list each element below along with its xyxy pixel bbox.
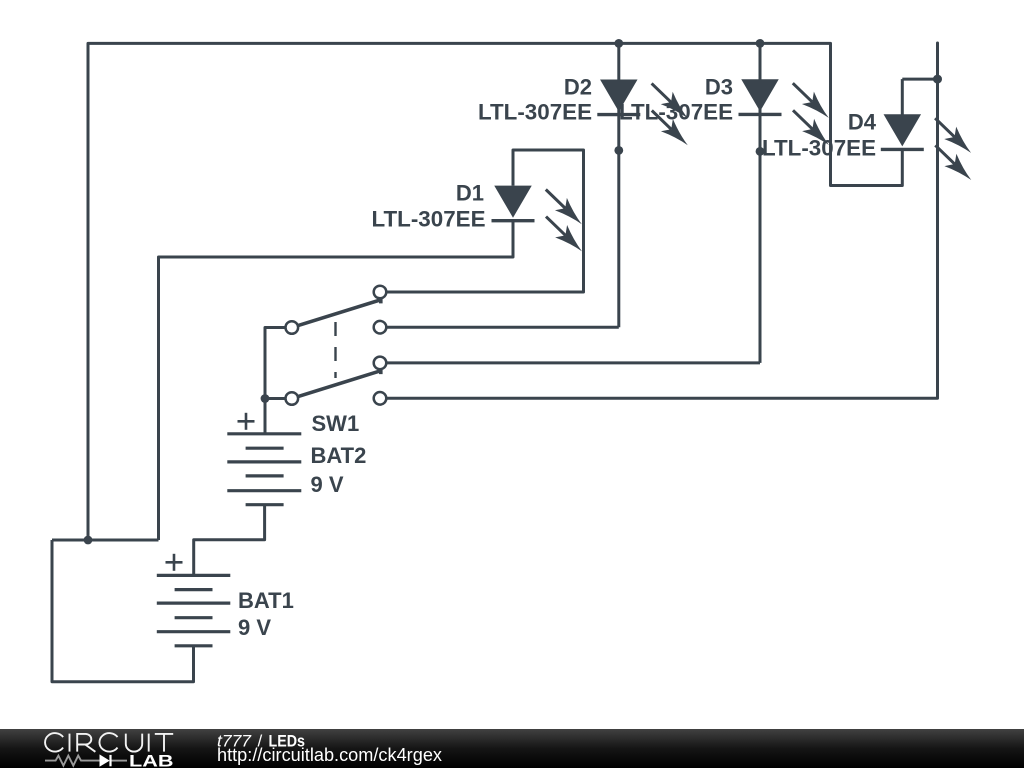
- svg-text:LAB: LAB: [129, 752, 174, 768]
- svg-text:D2: D2: [564, 74, 592, 99]
- svg-text:LTL-307EE: LTL-307EE: [478, 100, 592, 125]
- svg-text:BAT1: BAT1: [238, 588, 294, 613]
- svg-text:D4: D4: [848, 110, 877, 135]
- svg-text:D1: D1: [456, 180, 484, 205]
- svg-text:http://circuitlab.com/ck4rgex: http://circuitlab.com/ck4rgex: [217, 745, 442, 765]
- svg-text:BAT2: BAT2: [311, 443, 367, 468]
- svg-text:9 V: 9 V: [311, 472, 344, 497]
- svg-text:9 V: 9 V: [238, 615, 271, 640]
- svg-text:LTL-307EE: LTL-307EE: [372, 206, 486, 231]
- svg-text:SW1: SW1: [312, 411, 360, 436]
- svg-text:D3: D3: [705, 74, 733, 99]
- svg-text:LTL-307EE: LTL-307EE: [619, 100, 733, 125]
- svg-text:LTL-307EE: LTL-307EE: [762, 136, 876, 161]
